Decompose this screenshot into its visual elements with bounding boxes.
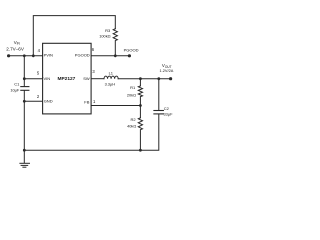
wire: ground bus xyxy=(24,114,159,150)
svg-text:33µF: 33µF xyxy=(164,111,174,116)
svg-text:1: 1 xyxy=(93,99,96,104)
node: riser junction at Vin line xyxy=(32,54,35,57)
svg-text:20kΩ: 20kΩ xyxy=(127,93,136,98)
svg-text:PVIN: PVIN xyxy=(44,53,53,58)
svg-text:4: 4 xyxy=(38,48,41,53)
wire: C2 top lead xyxy=(158,79,160,110)
svg-text:R1: R1 xyxy=(130,85,136,90)
wire: R2 top lead xyxy=(139,106,141,118)
ground xyxy=(20,150,30,167)
IC U1 MP2127 regulator box xyxy=(43,43,92,114)
svg-text:PGOOD: PGOOD xyxy=(124,47,139,52)
node: VIN pin branch junction xyxy=(23,77,26,80)
inductor L1 xyxy=(104,76,118,79)
resistor R3 xyxy=(113,29,117,56)
svg-text:1.2V/2A: 1.2V/2A xyxy=(160,68,174,73)
wire: Vin rail down to C1 xyxy=(23,56,25,86)
resistor R2 xyxy=(138,118,142,150)
svg-text:FB: FB xyxy=(84,100,89,105)
wire: SW pin 3 to L1 xyxy=(91,78,104,80)
node: R1 output junction xyxy=(139,77,142,80)
svg-text:SW: SW xyxy=(83,76,90,81)
svg-text:PGOOD: PGOOD xyxy=(75,53,90,58)
node: FB divider junction xyxy=(139,104,142,107)
capacitor C1 xyxy=(21,87,29,91)
svg-text:R3: R3 xyxy=(105,28,111,33)
wire: R1 top lead xyxy=(139,79,141,86)
node: Vin input terminal xyxy=(7,54,10,57)
wire: PGOOD net from pin 6 to terminal xyxy=(91,55,129,57)
svg-text:VIN: VIN xyxy=(14,40,21,46)
node: R3 to PGOOD junction xyxy=(114,54,117,57)
node: C2 output junction xyxy=(157,77,160,80)
node: Vin rail junction at Vin line xyxy=(23,54,26,57)
wire: GND pin 2 branch xyxy=(24,100,42,102)
svg-text:40kΩ: 40kΩ xyxy=(127,123,136,128)
svg-text:3: 3 xyxy=(92,69,95,74)
svg-text:10µF: 10µF xyxy=(10,88,20,93)
svg-text:C2: C2 xyxy=(164,106,170,111)
svg-text:3.3µH: 3.3µH xyxy=(105,81,116,86)
wire: output line from L1 to Vout terminal xyxy=(118,78,170,80)
svg-text:2: 2 xyxy=(37,94,40,99)
wire: C1 bottom to ground bus xyxy=(23,91,25,151)
svg-text:GND: GND xyxy=(44,99,53,104)
svg-text:5: 5 xyxy=(37,71,40,76)
svg-text:C1: C1 xyxy=(14,81,20,86)
svg-text:R2: R2 xyxy=(130,117,136,122)
svg-text:100kΩ: 100kΩ xyxy=(99,33,110,38)
wire: Vin input line to PVIN pin 4 xyxy=(8,55,42,57)
node: ground bus left junction xyxy=(23,149,26,152)
wire: top wire from Vin riser to R3 xyxy=(33,16,115,56)
svg-text:MP2127: MP2127 xyxy=(57,76,75,82)
svg-text:L1: L1 xyxy=(109,71,114,76)
wire: VIN pin 5 branch xyxy=(24,78,42,80)
node: GND pin branch junction xyxy=(23,100,26,103)
capacitor C2 xyxy=(154,111,164,114)
wire: FB line from pin 1 to divider xyxy=(91,105,140,107)
svg-text:2.7V–6V: 2.7V–6V xyxy=(6,46,25,51)
resistor R1 xyxy=(138,86,142,106)
svg-text:6: 6 xyxy=(92,47,95,52)
node: PGOOD terminal xyxy=(128,54,131,57)
node: R2 ground junction xyxy=(139,149,142,152)
node: Vout terminal xyxy=(169,77,172,80)
svg-text:VIN: VIN xyxy=(44,76,51,81)
